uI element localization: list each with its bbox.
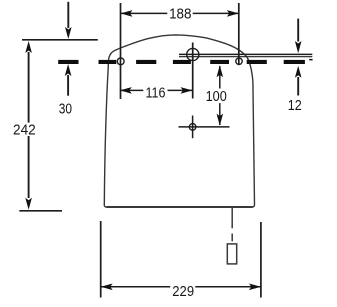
- right mounting hole: [236, 58, 242, 64]
- bottom left extension line: [100, 221, 102, 298]
- 30 up arrow: [65, 64, 72, 96]
- pull cord: [227, 207, 236, 264]
- center vertical line: [192, 43, 194, 99]
- svg-text:229: 229: [172, 284, 194, 300]
- dimension 229: [101, 284, 261, 291]
- tank bottom edge: [107, 206, 253, 208]
- svg-text:12: 12: [288, 98, 302, 114]
- svg-text:242: 242: [13, 123, 36, 139]
- left mounting hole: [117, 58, 124, 65]
- wall rail double line: [179, 54, 312, 56]
- dimension 116: [120, 87, 193, 94]
- left extension line: [120, 3, 122, 99]
- dimension 242: [25, 41, 32, 210]
- svg-text:188: 188: [169, 7, 191, 23]
- dimension 12: [295, 19, 302, 96]
- dimension 188: [121, 10, 239, 17]
- bottom right extension line: [260, 222, 262, 298]
- dimension 100: [217, 65, 224, 125]
- big center hole: [187, 48, 199, 60]
- tank outline: [104, 35, 254, 207]
- top reference line: [22, 39, 98, 41]
- right extension line: [238, 3, 240, 64]
- svg-text:116: 116: [146, 86, 166, 102]
- svg-text:30: 30: [59, 101, 72, 117]
- dashed centerline: [58, 59, 312, 64]
- lower hole crosshair: [179, 116, 230, 139]
- bottom left tick: [19, 210, 62, 212]
- top down arrow: [65, 2, 72, 39]
- svg-text:100: 100: [206, 89, 227, 105]
